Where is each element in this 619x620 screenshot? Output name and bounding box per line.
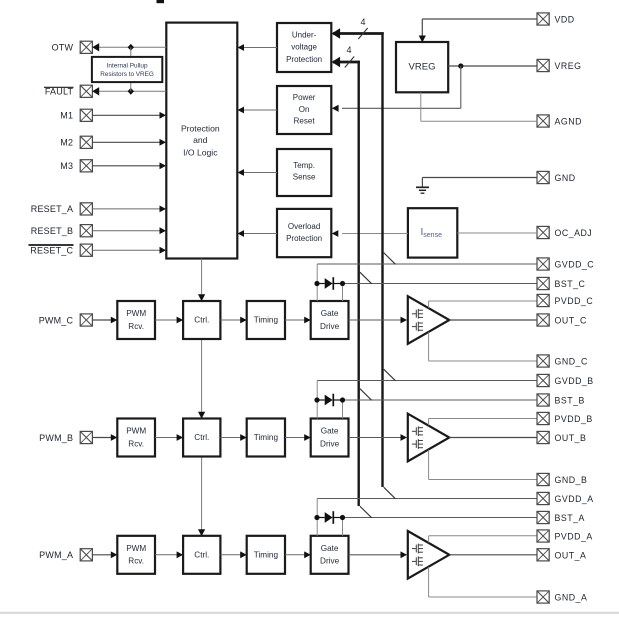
svg-text:On: On bbox=[299, 105, 310, 114]
label GVDD_C bbox=[555, 260, 595, 270]
bus tap slash GVDD_A bbox=[384, 487, 396, 499]
label BST_C bbox=[555, 279, 586, 289]
svg-text:Protection: Protection bbox=[181, 124, 220, 134]
junction diamond OTW pullup bbox=[128, 44, 134, 57]
bus tap slash BST_B bbox=[360, 389, 372, 401]
svg-text:Under-: Under- bbox=[292, 30, 317, 39]
pin GVDD_B bbox=[537, 374, 549, 386]
svg-text:PWM: PWM bbox=[126, 427, 146, 436]
svg-text:OC_ADJ: OC_ADJ bbox=[555, 228, 593, 238]
wire UVP to Protection logic bbox=[238, 44, 278, 51]
label OUT_A bbox=[555, 550, 587, 560]
label M1 bbox=[60, 111, 73, 121]
junction dot diode anode B bbox=[314, 397, 319, 402]
svg-text:Protection: Protection bbox=[286, 55, 322, 64]
pin BST_B bbox=[537, 394, 549, 406]
svg-text:BST_C: BST_C bbox=[555, 279, 586, 289]
wire VREG to AGND bbox=[421, 92, 537, 121]
label GND_C bbox=[555, 357, 588, 367]
wire GVDD_B net bbox=[317, 381, 537, 419]
wire VREG output bbox=[448, 65, 537, 67]
junction diamond FAULT pullup bbox=[128, 82, 134, 95]
pin M3 bbox=[80, 160, 92, 172]
svg-text:Drive: Drive bbox=[320, 439, 340, 448]
svg-text:Drive: Drive bbox=[320, 322, 340, 331]
pin AGND bbox=[537, 115, 549, 127]
svg-text:PWM: PWM bbox=[126, 544, 146, 553]
label PVDD_A bbox=[555, 532, 593, 542]
wire PVDD_B net bbox=[429, 419, 537, 426]
svg-text:GVDD_B: GVDD_B bbox=[555, 376, 594, 386]
label PWM_B bbox=[39, 433, 73, 443]
block Protection and I/O Logic bbox=[166, 23, 237, 259]
svg-text:Timing: Timing bbox=[254, 550, 279, 559]
wire PWM_A to PWM Rcv bbox=[92, 551, 117, 558]
label RESET_A bbox=[31, 204, 73, 214]
wire Gate Drive to power stage C bbox=[349, 317, 408, 324]
wire PWM_B to PWM Rcv bbox=[92, 434, 117, 441]
pin OUT_A bbox=[537, 549, 549, 561]
bus tap slash GVDD_B bbox=[384, 369, 396, 381]
svg-text:Rcv.: Rcv. bbox=[128, 322, 144, 331]
wire RESET_A to Protection logic bbox=[92, 206, 166, 213]
svg-text:GVDD_A: GVDD_A bbox=[555, 494, 594, 504]
block Gate Drive C bbox=[311, 301, 349, 339]
svg-text:BST_B: BST_B bbox=[555, 396, 585, 406]
label OUT_B bbox=[555, 433, 587, 443]
wire GND_C net bbox=[429, 332, 537, 361]
bus tap slash GVDD_C bbox=[384, 253, 396, 265]
label GVDD_B bbox=[555, 376, 594, 386]
wire VDD to VREG bbox=[419, 19, 537, 43]
svg-text:Drive: Drive bbox=[320, 557, 340, 566]
svg-text:Internal Pullup: Internal Pullup bbox=[107, 63, 148, 70]
block PWM Rcv B bbox=[117, 419, 155, 457]
wire Ctrl to Timing B bbox=[220, 434, 246, 441]
svg-text:PVDD_A: PVDD_A bbox=[555, 532, 593, 542]
block Gate Drive A bbox=[311, 536, 349, 574]
pin GND bbox=[537, 171, 549, 183]
bus tap slash BST_A bbox=[360, 506, 372, 518]
svg-text:AGND: AGND bbox=[555, 117, 582, 127]
bus width slash lower bbox=[345, 57, 354, 68]
wire PWM_C to PWM Rcv bbox=[92, 317, 117, 324]
svg-text:Timing: Timing bbox=[254, 433, 279, 442]
bus width label 4 upper bbox=[360, 17, 365, 27]
svg-text:PVDD_B: PVDD_B bbox=[555, 414, 593, 424]
wire Gate Drive to power stage A bbox=[349, 551, 408, 558]
label GVDD_A bbox=[555, 494, 594, 504]
label BST_A bbox=[555, 513, 585, 523]
wire Ctrl to Timing C bbox=[220, 317, 246, 324]
svg-text:Power: Power bbox=[293, 93, 316, 102]
svg-text:VDD: VDD bbox=[555, 15, 575, 25]
wire Ctrl B to Ctrl A bbox=[198, 457, 205, 537]
svg-text:Rcv.: Rcv. bbox=[128, 557, 144, 566]
junction dot diode anode C bbox=[314, 281, 319, 286]
wire M1 to Protection logic bbox=[92, 112, 166, 119]
wire Isense to Overload Protection bbox=[332, 230, 408, 237]
wire POR to Protection logic bbox=[238, 107, 278, 114]
label BST_B bbox=[555, 396, 585, 406]
svg-text:RESET_C: RESET_C bbox=[30, 246, 73, 256]
wire BST_C net bbox=[343, 284, 538, 302]
wire Gate Drive to power stage B bbox=[349, 434, 408, 441]
svg-text:Protection: Protection bbox=[286, 234, 322, 243]
svg-text:GND: GND bbox=[555, 173, 576, 183]
power stage half-bridge B bbox=[408, 414, 450, 462]
wire Temp Sense to Protection logic bbox=[238, 169, 278, 176]
block Timing A bbox=[247, 536, 285, 574]
svg-text:Resistors to VREG: Resistors to VREG bbox=[100, 71, 154, 78]
block Timing C bbox=[247, 301, 285, 339]
junction dot diode cathode C bbox=[340, 281, 345, 286]
svg-text:OUT_B: OUT_B bbox=[555, 433, 587, 443]
svg-text:GVDD_C: GVDD_C bbox=[555, 260, 595, 270]
wire Protection logic to FAULT pin bbox=[92, 87, 166, 95]
wire BST_B net bbox=[343, 400, 538, 419]
svg-text:PVDD_C: PVDD_C bbox=[555, 296, 594, 306]
wire OUT_B net bbox=[449, 437, 537, 439]
bus wire GVDD (4) to Under-voltage Protection bbox=[332, 28, 384, 487]
label PWM_A bbox=[39, 550, 73, 560]
svg-text:PWM_A: PWM_A bbox=[39, 550, 73, 560]
wire GND to ground symbol bbox=[422, 178, 537, 188]
wire M3 to Protection logic bbox=[92, 162, 166, 169]
svg-text:Overload: Overload bbox=[288, 222, 320, 231]
svg-text:voltage: voltage bbox=[291, 43, 317, 52]
pin PWM_A bbox=[80, 549, 92, 561]
bootstrap diode DB bbox=[317, 394, 343, 407]
junction dot diode anode A bbox=[314, 515, 319, 520]
svg-text:Ctrl.: Ctrl. bbox=[194, 433, 209, 442]
wire PWM Rcv to Ctrl B bbox=[155, 434, 183, 441]
svg-text:RESET_B: RESET_B bbox=[31, 226, 73, 236]
power stage half-bridge A bbox=[408, 531, 450, 579]
block Ctrl B bbox=[183, 419, 220, 457]
pin GVDD_A bbox=[537, 492, 549, 504]
svg-text:OTW: OTW bbox=[52, 43, 74, 53]
wire VREG to Power On Reset bbox=[332, 66, 461, 112]
pin PVDD_C bbox=[537, 294, 549, 306]
label PVDD_B bbox=[555, 414, 593, 424]
junction dot diode cathode A bbox=[340, 515, 345, 520]
svg-text:OUT_C: OUT_C bbox=[555, 316, 587, 326]
bootstrap diode DA bbox=[317, 511, 343, 524]
svg-text:FAULT: FAULT bbox=[45, 87, 74, 97]
pin OUT_B bbox=[537, 431, 549, 443]
svg-text:GND_A: GND_A bbox=[555, 593, 588, 603]
svg-text:Gate: Gate bbox=[321, 309, 339, 318]
pin GND_C bbox=[537, 355, 549, 367]
label M2 bbox=[60, 138, 73, 148]
bus wire BST (4) to Under-voltage Protection bbox=[332, 57, 360, 506]
svg-text:I/O Logic: I/O Logic bbox=[183, 147, 218, 157]
pin FAULT bbox=[80, 85, 92, 97]
svg-text:M3: M3 bbox=[60, 161, 73, 171]
svg-text:PWM_B: PWM_B bbox=[39, 433, 73, 443]
pin PVDD_A bbox=[537, 530, 549, 542]
pin M1 bbox=[80, 109, 92, 121]
wire OUT_A net bbox=[449, 554, 537, 556]
pin PWM_B bbox=[80, 431, 92, 443]
wire Ctrl C to Ctrl B bbox=[198, 339, 205, 419]
svg-text:VREG: VREG bbox=[555, 61, 582, 71]
wire Timing to Gate Drive C bbox=[285, 317, 311, 324]
label GND bbox=[555, 173, 576, 183]
pin GND_B bbox=[537, 473, 549, 485]
svg-text:OUT_A: OUT_A bbox=[555, 550, 587, 560]
pin VREG bbox=[537, 59, 549, 71]
label AGND bbox=[555, 117, 582, 127]
label RESET_C with overline bbox=[29, 245, 74, 256]
junction dot diode cathode B bbox=[340, 397, 345, 402]
wire GND_A net bbox=[429, 567, 537, 597]
wire Overload to Protection logic bbox=[238, 230, 278, 237]
pin PVDD_B bbox=[537, 412, 549, 424]
wire Timing to Gate Drive A bbox=[285, 551, 311, 558]
wire Protection logic to OTW pin bbox=[92, 43, 166, 51]
label OTW bbox=[52, 43, 74, 53]
block Temp. Sense bbox=[277, 149, 331, 196]
label OC_ADJ bbox=[555, 228, 593, 238]
cropped title text fragment bbox=[157, 0, 165, 3]
pin OTW bbox=[80, 41, 92, 53]
wire Ctrl to Timing A bbox=[220, 551, 246, 558]
block PWM Rcv A bbox=[117, 536, 155, 574]
label PVDD_C bbox=[555, 296, 594, 306]
block PWM Rcv C bbox=[117, 301, 155, 339]
label OUT_C bbox=[555, 316, 587, 326]
wire GVDD_C net bbox=[317, 264, 537, 301]
pin PWM_C bbox=[80, 314, 92, 326]
label FAULT with overline bbox=[44, 87, 74, 97]
svg-text:Rcv.: Rcv. bbox=[128, 439, 144, 448]
svg-text:BST_A: BST_A bbox=[555, 513, 585, 523]
svg-text:Ctrl.: Ctrl. bbox=[194, 550, 209, 559]
pin OUT_C bbox=[537, 314, 549, 326]
block Gate Drive B bbox=[311, 419, 349, 457]
power stage half-bridge C bbox=[408, 296, 450, 344]
wire BST_A net bbox=[343, 518, 538, 536]
bus tap slash BST_C bbox=[360, 272, 372, 284]
pin BST_A bbox=[537, 511, 549, 523]
block Ctrl C bbox=[183, 301, 220, 339]
svg-text:Timing: Timing bbox=[254, 316, 279, 325]
svg-text:Gate: Gate bbox=[321, 544, 339, 553]
pin OC_ADJ bbox=[537, 226, 549, 238]
label VREG bbox=[555, 61, 582, 71]
wire Isense to OC_ADJ pin bbox=[457, 232, 537, 234]
svg-text:GND_B: GND_B bbox=[555, 475, 588, 485]
wire GND_B net bbox=[429, 450, 537, 480]
wire PVDD_A net bbox=[429, 536, 537, 543]
svg-text:PWM_C: PWM_C bbox=[39, 315, 74, 325]
ground symbol bbox=[416, 187, 429, 193]
wire OUT_C net bbox=[449, 319, 537, 321]
wire Timing to Gate Drive B bbox=[285, 434, 311, 441]
wire Protection logic to Ctrl C bbox=[198, 259, 205, 302]
pin RESET_C bbox=[80, 244, 92, 256]
svg-text:Gate: Gate bbox=[321, 427, 339, 436]
label GND_A bbox=[555, 593, 588, 603]
svg-text:4: 4 bbox=[360, 17, 365, 27]
block Timing B bbox=[247, 419, 285, 457]
wire RESET_B to Protection logic bbox=[92, 227, 166, 234]
block Isense bbox=[408, 208, 457, 257]
pin BST_C bbox=[537, 277, 549, 289]
wire GVDD_A net bbox=[317, 499, 537, 536]
svg-text:Temp.: Temp. bbox=[293, 161, 315, 170]
wire PWM Rcv to Ctrl A bbox=[155, 551, 183, 558]
svg-text:Reset: Reset bbox=[294, 116, 316, 125]
wire PWM Rcv to Ctrl C bbox=[155, 317, 183, 324]
bus width label 4 lower bbox=[346, 45, 351, 55]
page bottom rule bbox=[0, 612, 619, 614]
svg-text:Sense: Sense bbox=[293, 173, 316, 182]
pin GND_A bbox=[537, 591, 549, 603]
svg-text:GND_C: GND_C bbox=[555, 357, 588, 367]
pin GVDD_C bbox=[537, 258, 549, 270]
bus width slash upper bbox=[358, 28, 367, 39]
svg-text:M1: M1 bbox=[60, 111, 73, 121]
note box Internal Pullup Resistors to VREG bbox=[92, 57, 162, 82]
junction dot VREG output bbox=[458, 63, 463, 68]
wire PVDD_C net bbox=[429, 301, 537, 308]
svg-text:Ctrl.: Ctrl. bbox=[194, 316, 209, 325]
label M3 bbox=[60, 161, 73, 171]
block Ctrl A bbox=[183, 536, 220, 574]
svg-text:PWM: PWM bbox=[126, 309, 146, 318]
bootstrap diode DC bbox=[317, 277, 343, 290]
block Power On Reset bbox=[277, 86, 331, 134]
block Overload Protection bbox=[277, 209, 331, 257]
pin M2 bbox=[80, 136, 92, 148]
block Under-voltage Protection bbox=[277, 23, 331, 72]
svg-text:M2: M2 bbox=[60, 138, 73, 148]
svg-text:4: 4 bbox=[346, 45, 351, 55]
svg-text:VREG: VREG bbox=[409, 62, 436, 73]
label GND_B bbox=[555, 475, 588, 485]
wire M2 to Protection logic bbox=[92, 139, 166, 146]
label PWM_C bbox=[39, 315, 74, 325]
block VREG bbox=[396, 42, 448, 92]
label RESET_B bbox=[31, 226, 73, 236]
svg-text:and: and bbox=[193, 135, 208, 145]
pin VDD bbox=[537, 13, 549, 25]
wire RESET_C to Protection logic bbox=[92, 247, 166, 254]
pin RESET_A bbox=[80, 203, 92, 215]
pin RESET_B bbox=[80, 225, 92, 237]
label VDD bbox=[555, 15, 575, 25]
svg-text:RESET_A: RESET_A bbox=[31, 204, 73, 214]
